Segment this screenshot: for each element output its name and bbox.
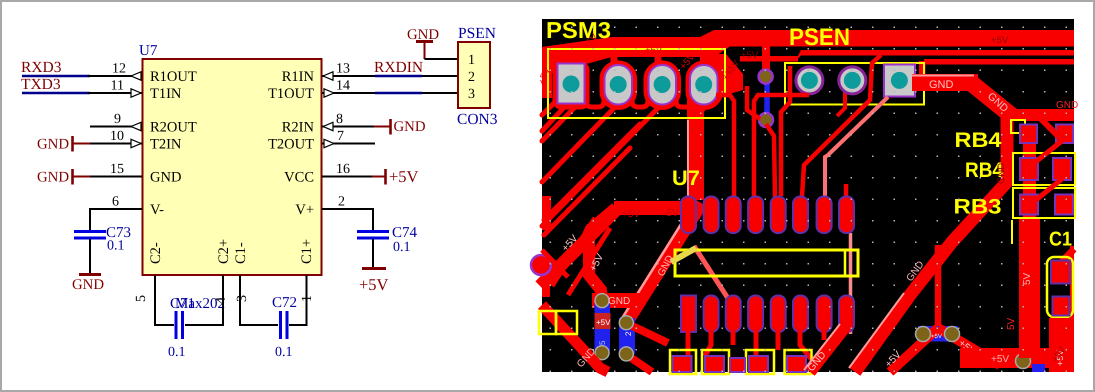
thin diagonal traces from PSM3 pads: [542, 100, 662, 235]
resistor RB3 row: [1013, 178, 1075, 218]
svg-text:9: 9: [114, 112, 121, 127]
svg-text:GND: GND: [72, 277, 104, 293]
svg-text:GND: GND: [37, 137, 69, 153]
PSEN pad B: [837, 67, 866, 116]
svg-text:PSEN: PSEN: [458, 25, 496, 42]
U7 top pad stub traces: [716, 55, 881, 198]
trace +5V vertical right column: [1006, 128, 1040, 358]
net label RXDIN: [374, 59, 423, 76]
svg-text:10: 10: [110, 129, 124, 144]
svg-text:C72: C72: [272, 295, 297, 311]
svg-text:0.1: 0.1: [275, 345, 293, 360]
svg-text:+5V: +5V: [389, 167, 419, 186]
wire C73 to ground: [89, 239, 91, 274]
pin 1 C1+: [300, 275, 315, 326]
trace GND from PSEN pad C to RB4: [912, 74, 1078, 121]
silkscreen GND vertical yellow label: [996, 163, 1007, 184]
U7 bottom pad row: [681, 296, 854, 333]
pin 7 T2OUT: [322, 129, 375, 148]
silkscreen RB label: [965, 159, 1003, 182]
svg-text:0.1: 0.1: [168, 345, 186, 360]
ground symbol below C73: [72, 275, 104, 294]
silkscreen fragment: [1011, 220, 1013, 244]
wire net RXD3: [22, 75, 90, 78]
svg-text:12: 12: [112, 62, 126, 77]
silkscreen RB4 label: [955, 129, 1002, 152]
svg-text:GND: GND: [394, 119, 426, 135]
IC U7 body (Max202): [143, 59, 322, 275]
pin 12 R1OUT: [88, 62, 142, 81]
svg-text:16: 16: [336, 162, 350, 177]
grid dots overlay: [542, 19, 1074, 372]
svg-text:R2OUT: R2OUT: [150, 120, 197, 136]
svg-text:1: 1: [468, 53, 475, 68]
left edge trace stubs: [542, 58, 552, 297]
ground symbol at T2IN: [37, 136, 91, 153]
net label RXD3: [21, 59, 62, 76]
svg-text:C1+: C1+: [299, 239, 315, 264]
trace pad4 down to elbow: [540, 54, 743, 286]
capacitor C74: [357, 225, 418, 255]
svg-text:C71: C71: [170, 296, 195, 312]
PCB_PANEL: [531, 17, 1078, 374]
trace +5V top band: [542, 30, 1074, 79]
svg-text:T1IN: T1IN: [150, 86, 182, 102]
capacitor C73: [74, 225, 131, 254]
svg-text:R1IN: R1IN: [282, 69, 315, 85]
connector CON3 body: [458, 42, 490, 108]
PCB board area: [542, 19, 1074, 372]
svg-text:3: 3: [468, 87, 475, 102]
svg-text:2: 2: [338, 195, 345, 210]
svg-text:13: 13: [336, 62, 350, 77]
bottom right via pair: [890, 326, 1000, 372]
silkscreen PSM3 label: [546, 17, 611, 43]
svg-text:R2IN: R2IN: [282, 120, 315, 136]
pin 9 R2OUT: [90, 112, 142, 131]
svg-text:T2OUT: T2OUT: [268, 137, 314, 153]
pin 16 VCC: [322, 162, 373, 177]
wire T1OUT net: [375, 92, 422, 95]
svg-text:GND: GND: [37, 170, 69, 186]
pin 6 V- and wire to C73: [90, 195, 142, 233]
svg-text:T1OUT: T1OUT: [268, 86, 314, 102]
svg-text:RXD3: RXD3: [21, 59, 62, 76]
PSM3 pad 4: [690, 65, 718, 105]
net label TXD3: [21, 76, 61, 93]
silkscreen U7 label: [672, 167, 700, 190]
trace thick diag to bottom pad3: [694, 246, 731, 303]
wire net RXDIN: [375, 75, 422, 78]
svg-text:6: 6: [112, 195, 119, 210]
trace elbow to via GND cluster: [589, 208, 616, 298]
capacitor C71: [155, 296, 223, 360]
SCHEMATIC_PANEL: [21, 25, 498, 360]
net labels -5V +5V middle: [560, 208, 679, 273]
small +5V net labels top: [536, 31, 1008, 86]
PSM3 pad 2: [605, 65, 633, 105]
U7 bottom pad stubs down: [688, 330, 824, 360]
svg-text:11: 11: [111, 79, 124, 94]
left edge partial pad: [531, 255, 551, 275]
svg-text:3: 3: [235, 295, 250, 302]
svg-text:15: 15: [110, 162, 124, 177]
svg-text:5: 5: [134, 295, 149, 302]
svg-text:C2-: C2-: [148, 242, 164, 264]
trace vertical to via pair: [935, 245, 942, 330]
via pair near PSEN: [759, 46, 773, 127]
left edge silkscreen box: [539, 311, 577, 334]
pin 2 V+ and wire to C74: [322, 195, 373, 233]
wire C74 to +5V: [372, 239, 374, 268]
pin 4 C2+: [214, 275, 229, 326]
svg-text:2: 2: [468, 70, 475, 85]
svg-text:14: 14: [336, 79, 350, 94]
svg-text:VCC: VCC: [284, 170, 314, 186]
svg-text:+5V: +5V: [359, 275, 389, 294]
trace GND steep diagonal: [621, 202, 701, 321]
pin 14 T1OUT: [322, 79, 375, 98]
GND label on diagonal: [656, 254, 676, 279]
trace +5V bottom right band: [883, 348, 1074, 370]
capacitor C1 outline and pads: [1032, 246, 1074, 372]
net label PSEN: [458, 25, 496, 42]
svg-text:V+: V+: [295, 202, 314, 218]
svg-text:V-: V-: [150, 202, 164, 218]
silkscreen PSEN label: [789, 24, 850, 51]
silkscreen PSEN outline box: [785, 63, 924, 105]
pin 3 C1-: [235, 275, 250, 326]
silkscreen PSM3 outline box: [548, 49, 725, 118]
+5V power symbol below C74: [359, 269, 389, 295]
pin 11 T1IN: [88, 79, 142, 98]
pin 10 T2IN: [90, 129, 142, 148]
pin 5 C2-: [134, 275, 155, 326]
svg-text:C74: C74: [392, 225, 418, 241]
svg-text:C2+: C2+: [216, 239, 232, 264]
part type label Max202: [175, 296, 225, 312]
pin 8 R2IN: [322, 112, 375, 131]
svg-text:U7: U7: [139, 43, 158, 59]
PSEN pad C: [884, 65, 915, 97]
resistor RB middle row: [1013, 140, 1075, 185]
svg-text:7: 7: [337, 129, 344, 144]
svg-text:4: 4: [214, 297, 229, 304]
GND via cluster bottom left: [592, 293, 668, 372]
U7 silkscreen outline: [671, 248, 858, 276]
designator U7: [139, 43, 158, 59]
capacitor C1 label: [1049, 229, 1072, 251]
svg-text:T2IN: T2IN: [150, 137, 182, 153]
wire RXDIN to connector: [422, 75, 458, 77]
PSM3 pad 1: [558, 64, 585, 104]
pin 15 GND: [90, 162, 142, 177]
ground symbol at GND pin 15: [37, 169, 91, 186]
trace through pad8 vertical GND: [846, 233, 856, 334]
bottom square pads: [673, 356, 807, 372]
wire T1OUT to connector: [422, 92, 458, 94]
connector PSM3 pad ring traces: [555, 52, 721, 108]
svg-text:0.1: 0.1: [393, 240, 411, 255]
bottom left corner diagonals: [542, 218, 610, 372]
svg-text:RXDIN: RXDIN: [374, 59, 423, 76]
trace big GND diagonal D2: [849, 114, 1007, 372]
wire ground to connector pin 1: [425, 58, 459, 60]
grid dots pattern def: [0, 0, 1, 1]
svg-text:C1-: C1-: [233, 242, 249, 264]
U7 top pad row: [681, 197, 854, 234]
svg-text:TXD3: TXD3: [21, 76, 61, 93]
designator CON3: [457, 111, 498, 128]
ground symbol at R2IN: [374, 119, 426, 135]
svg-text:1: 1: [300, 295, 315, 302]
wire net TXD3: [22, 92, 90, 95]
svg-text:R1OUT: R1OUT: [150, 69, 197, 85]
bottom silkscreen boxes: [670, 350, 812, 374]
PSM3 pad 3: [649, 65, 677, 105]
capacitor C72: [240, 295, 307, 360]
svg-text:8: 8: [336, 112, 343, 127]
pin 13 R1IN: [322, 62, 375, 81]
silkscreen RB3 label: [954, 196, 1002, 219]
+5V power symbol at VCC: [372, 167, 419, 186]
ground symbol above connector: [407, 27, 439, 59]
resistor RB4 pads top row: [1011, 118, 1073, 143]
svg-text:0.1: 0.1: [107, 239, 125, 254]
svg-text:GND: GND: [150, 170, 181, 186]
PSEN pad A: [796, 67, 823, 94]
trace D4 bottom diagonal: [804, 310, 846, 374]
svg-text:CON3: CON3: [457, 111, 498, 128]
